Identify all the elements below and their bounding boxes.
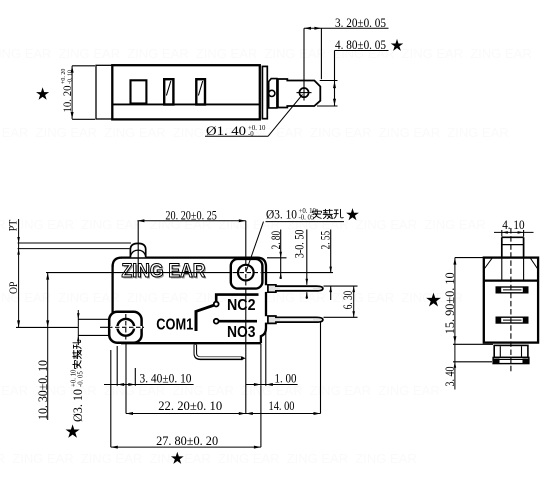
svg-text:+0. 10: +0. 10: [70, 369, 77, 387]
svg-text:14. 00: 14. 00: [269, 398, 295, 413]
svg-text:OP: OP: [6, 281, 20, 294]
svg-text:10. 30±0. 10: 10. 30±0. 10: [35, 360, 50, 420]
svg-text:3-0. 50: 3-0. 50: [291, 230, 306, 259]
svg-text:2. 80: 2. 80: [268, 231, 283, 250]
svg-text:6. 30: 6. 30: [340, 291, 355, 310]
svg-text:ZING EAR ZING EAR ZING EAR: ZING EAR ZING EAR ZING EAR ZING EAR ZING…: [0, 383, 447, 398]
svg-text:NO3: NO3: [227, 324, 256, 341]
svg-text:20. 20±0. 25: 20. 20±0. 25: [165, 207, 217, 222]
svg-text:COM1: COM1: [156, 317, 193, 334]
svg-text:2. 55: 2. 55: [317, 231, 332, 250]
svg-text:ZING EAR: ZING EAR: [122, 261, 206, 282]
svg-text:+0. 20: +0. 20: [61, 69, 67, 84]
svg-text:-0. 05: -0. 05: [299, 215, 315, 222]
svg-text:22. 20±0. 10: 22. 20±0. 10: [158, 398, 222, 413]
svg-text:-0. 10: -0. 10: [67, 70, 73, 84]
svg-text:4. 80±0. 05: 4. 80±0. 05: [335, 37, 386, 52]
svg-text:15. 90±0. 10: 15. 90±0. 10: [442, 272, 457, 334]
svg-text:-0: -0: [248, 131, 254, 138]
svg-text:-0. 05: -0. 05: [77, 371, 84, 387]
svg-text:Ø3. 10: Ø3. 10: [70, 389, 85, 422]
svg-text:ZING EAR ZING EAR ZING EAR: ZING EAR ZING EAR ZING EAR ZING EAR ZING…: [0, 217, 493, 232]
svg-text:1. 00: 1. 00: [275, 371, 297, 386]
svg-text:4. 10: 4. 10: [502, 217, 524, 232]
svg-text:PT: PT: [5, 219, 19, 231]
svg-text:NC2: NC2: [227, 297, 256, 314]
svg-text:10. 20: 10. 20: [60, 86, 74, 113]
svg-text:ZING EAR ZING EAR ZING EAR: ZING EAR ZING EAR ZING EAR ZING EAR ZING…: [0, 46, 539, 61]
svg-text:ZING EAR ZING EAR ZING EAR: ZING EAR ZING EAR ZING EAR ZING EAR ZING…: [0, 451, 424, 466]
svg-text:3. 40±0. 10: 3. 40±0. 10: [140, 371, 192, 386]
svg-text:3. 40: 3. 40: [442, 367, 457, 387]
svg-text:27. 80±0. 20: 27. 80±0. 20: [156, 433, 218, 448]
svg-text:3. 20±0. 05: 3. 20±0. 05: [335, 15, 386, 30]
svg-text:Ø3. 10: Ø3. 10: [266, 206, 297, 221]
svg-text:Ø1. 40: Ø1. 40: [206, 123, 246, 138]
